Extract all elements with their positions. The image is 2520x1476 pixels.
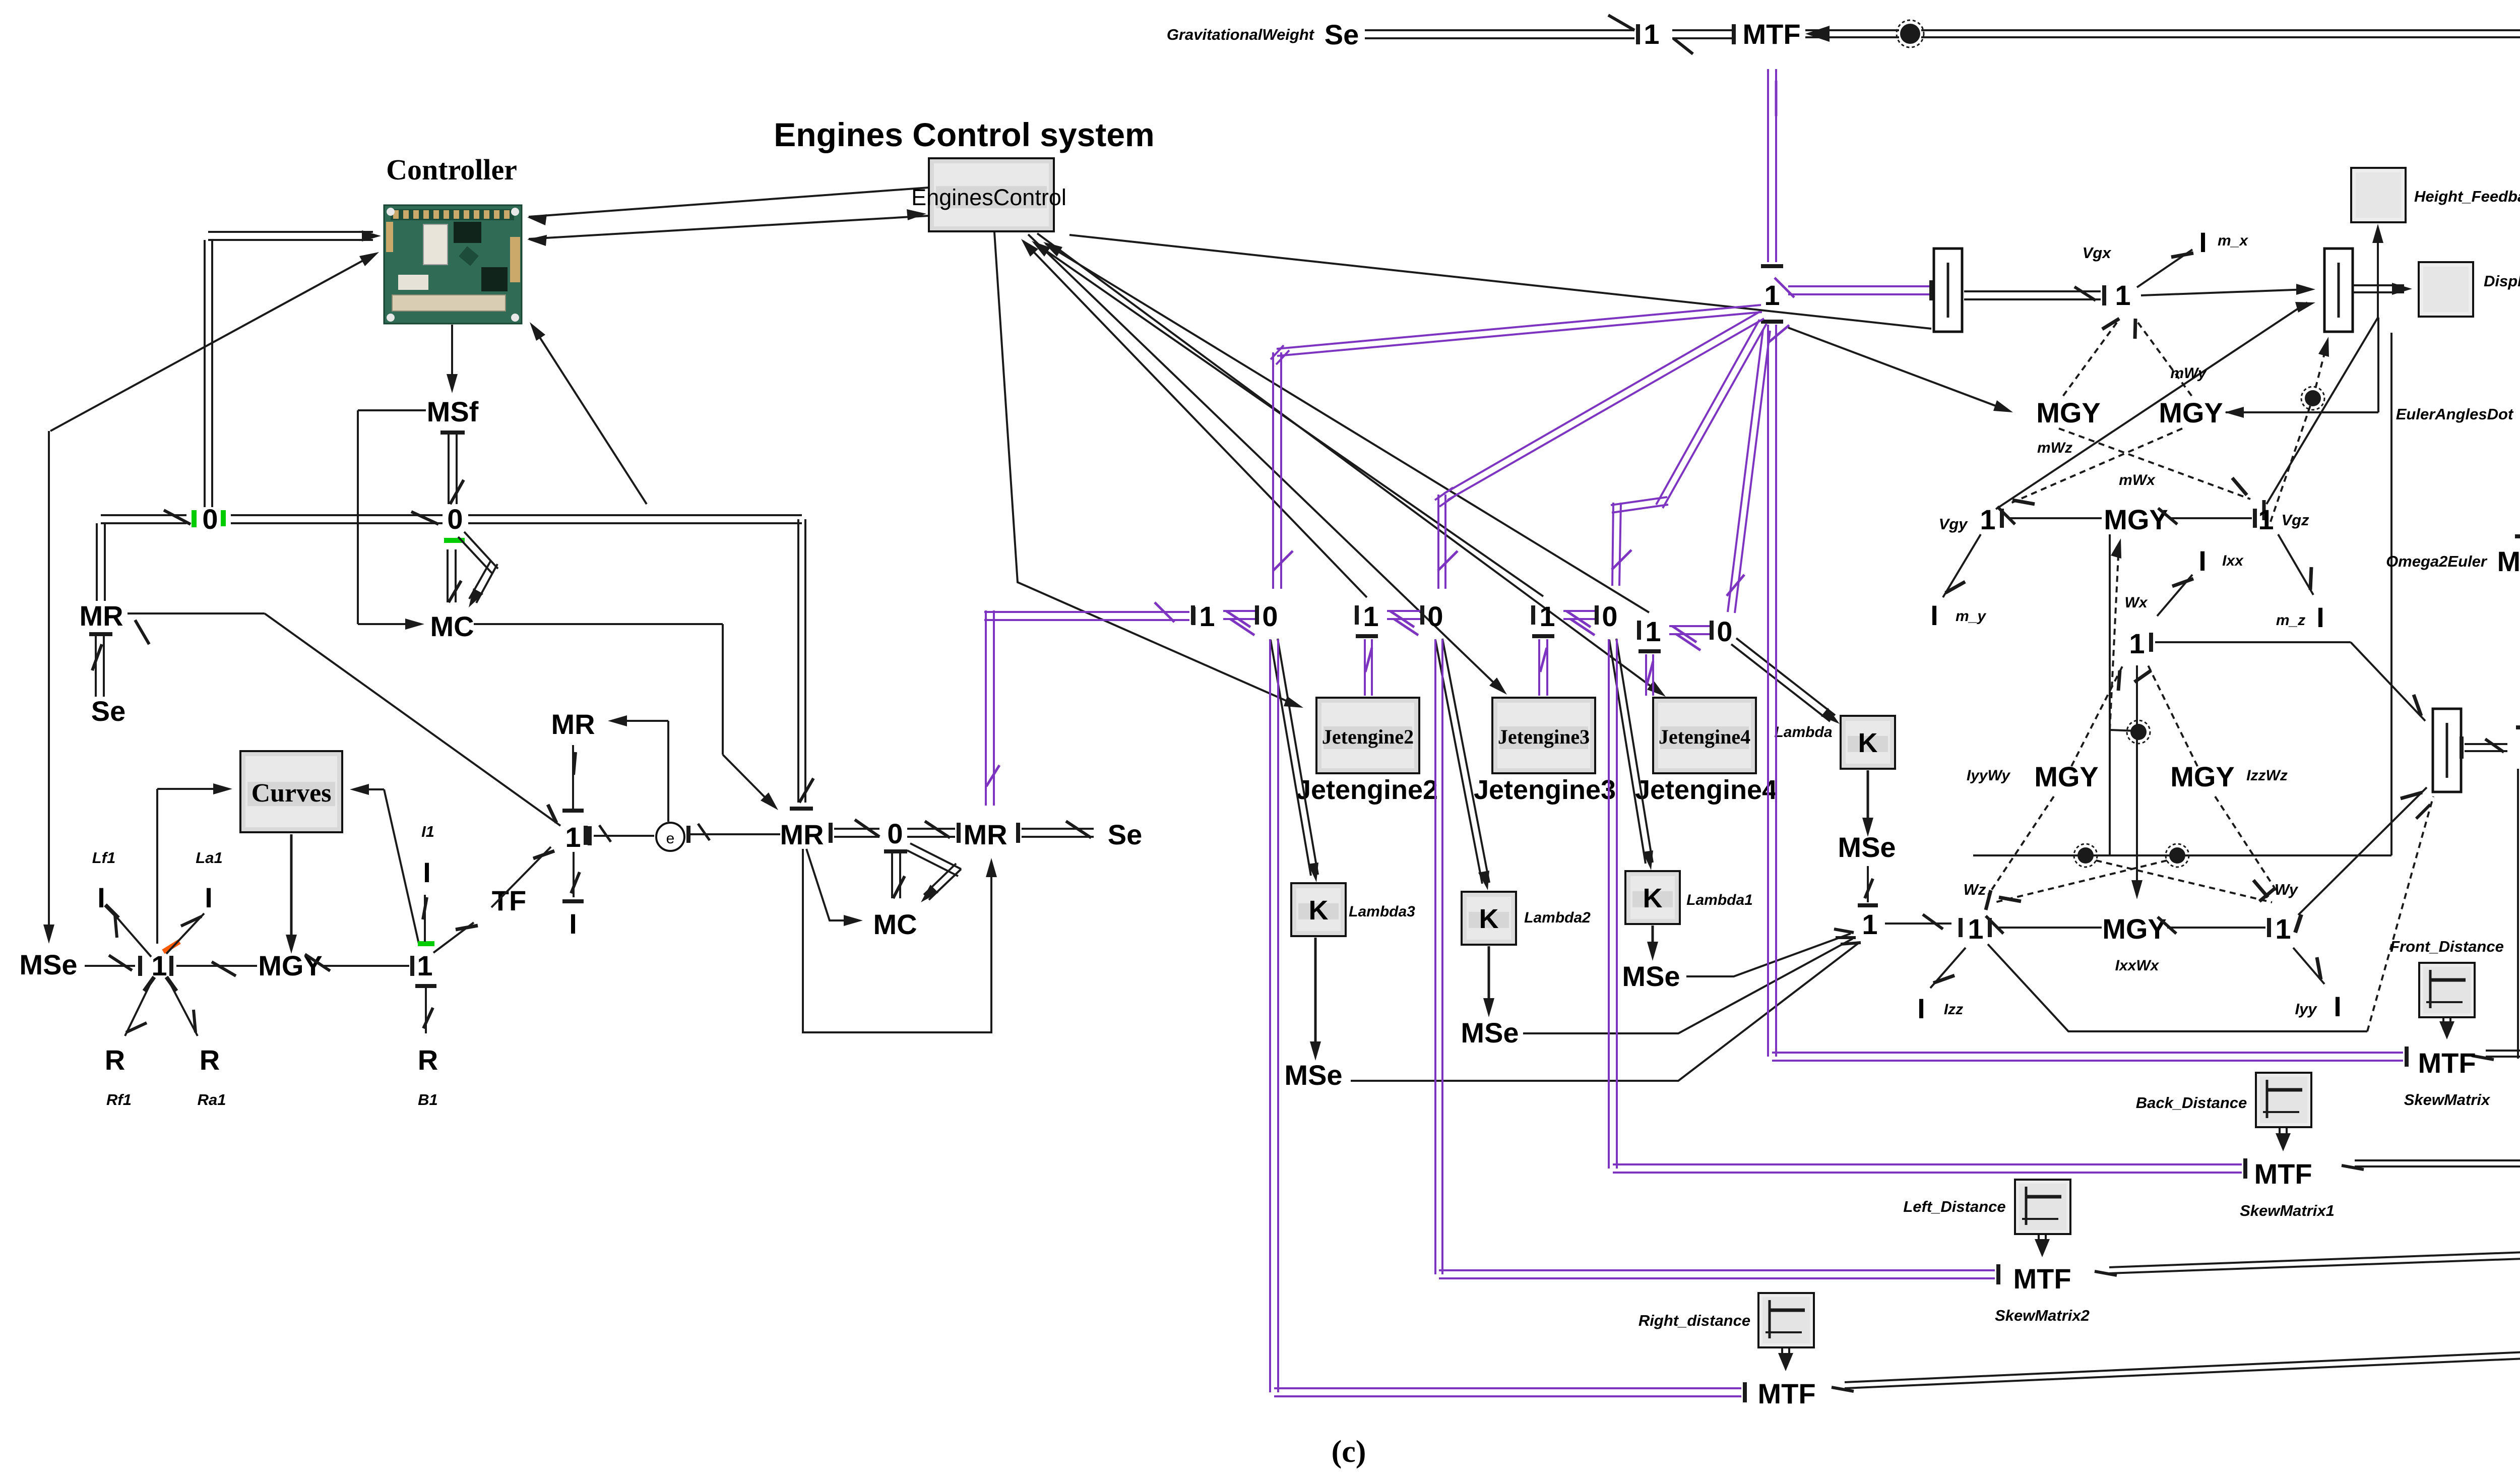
block Jetengine3: [1492, 698, 1595, 773]
svg-text:1: 1: [1764, 279, 1780, 311]
svg-text:MSe: MSe: [1461, 1017, 1519, 1049]
svg-text:1: 1: [2115, 279, 2130, 311]
bond dot to 1 Wz (diagonal): [1995, 858, 2177, 902]
vertical purple 0 Jet4 to MTF SkewMatrix1: [1608, 639, 1610, 1168]
bond 1 to I (speed): [573, 852, 575, 897]
wire MR to MC (middle modulation): [806, 849, 855, 920]
svg-text:MTF: MTF: [2254, 1158, 2312, 1190]
svg-text:1: 1: [1644, 18, 1659, 50]
bond 1 to I (La1): [166, 913, 204, 954]
svg-text:1: 1: [2275, 913, 2291, 945]
wire MR-MR feedback loop (bottom): [803, 849, 991, 1032]
junction 1 (Wz): [1959, 918, 1963, 937]
svg-text:Jetengine2: Jetengine2: [1296, 775, 1438, 805]
block K (Lambda3): [1291, 883, 1346, 936]
bond hub down to MTF SkewMatrix (long purple): [1761, 320, 1783, 324]
wire junction 1 Jet2 to EnginesControl: [1023, 241, 1367, 597]
wire 1 to Curves (left): [157, 788, 224, 790]
svg-text:Lambda1: Lambda1: [1686, 892, 1753, 908]
bond MGY IxxWx to 1 Wz: [1997, 927, 2102, 929]
bond sensor to Displacement_probe: [2353, 291, 2404, 293]
bond 1 Gy fan to MTF SkewMatrix (down): [2517, 769, 2519, 1059]
svg-text:MTF: MTF: [2013, 1263, 2071, 1295]
svg-text:I: I: [1917, 993, 1925, 1024]
svg-text:Lambda2: Lambda2: [1524, 909, 1591, 926]
signal e circle: [656, 823, 684, 851]
wire junction 1 Jet4 to EnginesControl: [1046, 244, 1649, 612]
bond Vgy junction to mass sensor (diagonal): [1996, 302, 2307, 509]
wire Left_Distance to MTF: [2038, 1235, 2040, 1246]
bond 1 Wz to I Izz: [1930, 948, 1966, 988]
wire sensor column to 1 Vgz: [2266, 318, 2378, 504]
svg-text:0: 0: [1427, 600, 1443, 632]
svg-text:Jetengine2: Jetengine2: [1322, 725, 1414, 748]
bond 0 to MC (vertical): [447, 549, 449, 602]
signal dot (top): [1900, 24, 1920, 44]
svg-text:MSe: MSe: [1284, 1059, 1342, 1091]
svg-text:MSe: MSe: [1622, 960, 1680, 992]
bond 1 to R (Ra1): [169, 982, 198, 1036]
svg-text:0: 0: [1262, 600, 1278, 632]
svg-text:I: I: [2334, 991, 2342, 1022]
bond 1 Wy to MGY IxxWx: [2167, 927, 2265, 929]
bond Jetengine4 to 1: [1639, 649, 1661, 653]
svg-text:1: 1: [1980, 504, 1995, 535]
bond Se to MR (left): [89, 632, 112, 636]
svg-text:IxxWx: IxxWx: [2115, 957, 2160, 974]
wire 1 Wz to Gy sensor (bottom loop): [1988, 944, 2367, 1031]
bond 1 to 1 (Wz link): [1885, 922, 1951, 925]
bond hub to 0 Jetengine4 (purple): [1656, 320, 1759, 505]
wire MR to e: [686, 833, 780, 835]
svg-text:MGY: MGY: [2159, 397, 2223, 428]
svg-text:I: I: [423, 856, 431, 888]
svg-text:1: 1: [1862, 908, 1877, 940]
svg-text:MSe: MSe: [19, 949, 77, 980]
wire Front_Distance to MTF: [2442, 1018, 2444, 1029]
bond Jetengine3 to 1: [1532, 634, 1554, 638]
svg-text:MR: MR: [79, 600, 123, 632]
wire 1 to Curves (right, from TF junction): [358, 788, 384, 790]
svg-text:MGY: MGY: [2036, 397, 2101, 428]
bond 0 to MC (middle, vertical): [884, 849, 907, 853]
wire EnginesControl to Jetengine2: [994, 232, 1295, 705]
svg-text:I: I: [1930, 599, 1938, 631]
green causal mark under 0: [444, 538, 465, 543]
bond hub to MTF (top, vertical purple): [1767, 69, 1769, 262]
svg-text:MGY: MGY: [2170, 761, 2235, 792]
mass flow sensor (height): [2324, 249, 2353, 332]
bond MGY IyyWy to 1 Wx: [2071, 665, 2123, 766]
svg-text:MTF: MTF: [1757, 1378, 1815, 1409]
wire EnginesControl to Jetengine3: [1028, 234, 1499, 688]
block Jetengine4: [1653, 698, 1756, 773]
svg-text:mWz: mWz: [2037, 440, 2072, 456]
svg-text:Se: Se: [1325, 19, 1359, 50]
svg-text:Wy: Wy: [2275, 881, 2299, 898]
svg-text:Lf1: Lf1: [92, 849, 116, 867]
bond 1 to R (B1): [415, 984, 436, 988]
bonds MGY to 1 Vgx (harpoons below): [2061, 323, 2117, 398]
bond 0 to MR (left edge): [101, 522, 186, 524]
svg-text:e: e: [666, 830, 675, 847]
svg-text:IyyWy: IyyWy: [1967, 767, 2010, 784]
block Displacement_probe: [2419, 262, 2473, 317]
svg-text:MTF: MTF: [2497, 545, 2520, 577]
wire MC to MR (modulation, long): [474, 623, 723, 625]
bond 1 Wx to I Ixx: [2157, 575, 2192, 616]
bond 1 Wx to Gy sensor (long line): [2155, 641, 2351, 643]
svg-text:I: I: [97, 882, 105, 913]
bond 1 Vgy to I m_y: [1943, 534, 1981, 597]
svg-text:1: 1: [417, 950, 432, 981]
svg-text:SkewMatrix1: SkewMatrix1: [2240, 1202, 2335, 1219]
wire Right_distance to MTF: [1781, 1348, 1783, 1360]
purple horizontal to MTF SkewMatrix: [1772, 1060, 2403, 1062]
svg-text:R: R: [105, 1044, 125, 1076]
svg-text:Left_Distance: Left_Distance: [1903, 1198, 2005, 1215]
wire sensor to Height_Feedback: [2377, 232, 2379, 318]
bond Se to 1 junction (top): [1365, 37, 1634, 39]
signal dot (gravity direction): [2305, 390, 2321, 406]
block Jetengine2: [1316, 698, 1419, 773]
svg-text:R: R: [200, 1044, 220, 1076]
wire controller lower-right diagonal: [532, 326, 647, 504]
green causal mark above 1 (rotor): [418, 941, 434, 946]
signal dot (Wx column): [2130, 724, 2147, 740]
purple horizontal to MTF SkewMatrix2: [1439, 1277, 1995, 1279]
bond Gy sensor to 1 Gy_Values: [2460, 736, 2464, 759]
block K (Lambda1): [1625, 871, 1680, 924]
svg-text:EnginesControl: EnginesControl: [911, 184, 1066, 210]
svg-text:1: 1: [1199, 600, 1215, 632]
bond 1 to I (I1): [424, 895, 426, 942]
svg-text:K: K: [1479, 904, 1499, 934]
svg-text:Vgx: Vgx: [2083, 244, 2112, 262]
wire EnginesControl to controller (upper): [529, 188, 929, 217]
purple horizontal to MTF SkewMatrix1: [1613, 1172, 2242, 1174]
bond Jetengine2 to 1: [1356, 634, 1378, 638]
svg-text:Omega2Euler: Omega2Euler: [2386, 552, 2488, 570]
block K (Lambda): [1841, 716, 1895, 769]
bond MGY IzzWz to 1 Wx: [2148, 665, 2197, 766]
gyrator MGY top arrow (from 1 Wx): [2111, 538, 2121, 559]
svg-text:Izz: Izz: [1944, 1001, 1963, 1018]
svg-text:IzzWz: IzzWz: [2246, 767, 2288, 784]
bond 0 left to 0 right: [231, 522, 443, 524]
svg-text:MGY: MGY: [2034, 761, 2099, 792]
svg-text:Right_distance: Right_distance: [1639, 1312, 1750, 1329]
bond TF to 1 (e junction): [491, 847, 551, 907]
svg-text:MR: MR: [551, 708, 595, 740]
svg-text:(c): (c): [1332, 1435, 1366, 1469]
svg-text:Curves: Curves: [251, 779, 332, 808]
bond 1 Wy to Gy sensor (diagonal): [2298, 787, 2427, 915]
wire Height_Feedback column to MGY mWy: [2377, 318, 2379, 412]
svg-text:Front_Distance: Front_Distance: [2390, 938, 2504, 955]
bond controller to MSf: [451, 325, 453, 385]
bond e to 1 (error): [594, 835, 654, 837]
svg-text:I: I: [205, 882, 213, 913]
svg-text:Rf1: Rf1: [106, 1091, 132, 1109]
sensor Back_Distance: [2256, 1073, 2311, 1127]
svg-text:Wx: Wx: [2125, 594, 2148, 611]
bond MGY IyyWy to 1 Wz: [1988, 796, 2054, 895]
bond 1 to MGY: [176, 965, 257, 967]
bond MR to Se (middle): [1016, 823, 1020, 843]
wire K to MSe (Lambda1): [1652, 926, 1654, 953]
block Height_Feedback: [2351, 168, 2406, 222]
svg-text:Wz: Wz: [1964, 881, 1986, 898]
svg-text:Vgy: Vgy: [1939, 515, 1969, 533]
bond dot to 1 Wy (diagonal): [2086, 858, 2272, 902]
svg-text:Controller: Controller: [386, 153, 517, 186]
svg-text:0: 0: [447, 503, 463, 535]
svg-text:B1: B1: [418, 1091, 438, 1109]
wire MSe Lambda3 to 1 junction: [1351, 944, 1858, 1081]
svg-text:K: K: [1643, 883, 1663, 913]
svg-text:La1: La1: [196, 849, 222, 867]
svg-text:0: 0: [1602, 600, 1617, 632]
wire MSe Lambda1 to 1 junction: [1686, 934, 1851, 976]
bond 1 Gy to MTF Omega2Euler (vertical): [2516, 725, 2520, 729]
bond MSf to 0 junction: [440, 430, 465, 435]
block K (Lambda2): [1462, 892, 1516, 945]
bond MTF to 1 EulerAnglesDot (vertical): [2515, 534, 2520, 538]
bond 0 to K (Lambda3): [1271, 640, 1311, 876]
bond dot to MTF (top): [1805, 26, 1830, 42]
bond hub to 0 Jetengine3 (purple): [1444, 312, 1760, 494]
svg-text:m_z: m_z: [2276, 612, 2305, 629]
svg-text:I1: I1: [421, 823, 434, 840]
svg-text:MSe: MSe: [1838, 831, 1896, 863]
svg-text:Lambda: Lambda: [1774, 724, 1832, 741]
wire EnginesControl to controller (lower): [529, 216, 929, 239]
big rectangle loop (angular cluster): [2109, 534, 2111, 855]
bond Curves to MGY (modulation): [290, 834, 293, 946]
bond 1 to I (Lf1): [113, 913, 151, 957]
svg-text:1: 1: [1539, 600, 1555, 632]
svg-text:1: 1: [1968, 913, 1983, 945]
svg-text:I: I: [2316, 601, 2324, 633]
wire into MGY mWz: [1788, 328, 2005, 409]
bond MSe to 1 (moments): [1867, 866, 1869, 902]
bond MGY mWx to 1 Vgy: [2008, 517, 2102, 519]
bond MR to 0 (middle row): [829, 823, 833, 843]
svg-text:Ra1: Ra1: [198, 1091, 226, 1109]
wire feedback to EnginesControl (long, from velocity junction): [1069, 235, 1931, 329]
green causal bars flanking 0 (left): [192, 510, 197, 527]
wire Back_Distance to MTF: [2279, 1128, 2281, 1140]
purple horizontal to MTF Right distance: [1274, 1395, 1741, 1397]
svg-text:Jetengine4: Jetengine4: [1659, 725, 1750, 748]
bond 1 Vgz to MGY mWx: [2170, 517, 2252, 519]
block EnginesControl: [929, 158, 1054, 231]
svg-text:Iyy: Iyy: [2295, 1000, 2317, 1018]
bond hub to flow sensor (right): [1788, 293, 1929, 295]
sensor Front_Distance: [2419, 963, 2475, 1017]
bond MGY mWz to 1 Vgz (diagonal): [2059, 428, 2250, 499]
bond 1 to MGY (right side): [323, 965, 409, 967]
svg-text:m_x: m_x: [2218, 232, 2248, 249]
controller PCB image: [384, 205, 522, 324]
bond 1 Vgx to mass sensor: [2141, 289, 2307, 295]
svg-text:Height_Feedback: Height_Feedback: [2414, 188, 2520, 205]
flow sensor (Gy values): [2433, 709, 2461, 792]
svg-text:SkewMatrix: SkewMatrix: [2404, 1091, 2491, 1109]
svg-text:I: I: [2198, 545, 2207, 577]
bond 0 to K (Lambda): [1731, 644, 1830, 721]
bond hub to 0 K Lambda (purple): [1728, 330, 1763, 612]
svg-text:K: K: [1309, 895, 1329, 926]
wire K to MSe (Lambda2): [1488, 946, 1490, 1009]
svg-text:Se: Se: [1108, 819, 1143, 850]
svg-text:0: 0: [1717, 616, 1732, 647]
svg-text:Back_Distance: Back_Distance: [2136, 1094, 2247, 1112]
bond 1 Vgz to mass sensor (modulation, dashed through dot): [2271, 398, 2313, 522]
bond 0 to K (Lambda1): [1609, 640, 1646, 864]
svg-text:I: I: [569, 908, 577, 940]
svg-text:MGY: MGY: [2102, 913, 2167, 945]
svg-text:1: 1: [2129, 628, 2145, 659]
svg-text:0: 0: [202, 503, 218, 535]
svg-text:MTF: MTF: [2418, 1047, 2476, 1079]
sensor Right_distance: [1758, 1293, 1814, 1347]
wire K to MSe (Lambda3): [1314, 938, 1317, 1053]
wire purple corner to MR (from Jetengine2 junction): [1155, 602, 1174, 622]
bond 1 to MR (diagonal long): [128, 612, 265, 614]
flow sensor (force): [1934, 249, 1962, 332]
vertical purple 0 Jet2 to MTF bottom: [1269, 639, 1271, 1392]
bond 0 junction to controller (left input): [208, 239, 373, 241]
svg-text:I: I: [2199, 226, 2207, 258]
wire K to MSe (Lambda): [1867, 770, 1869, 829]
wire MSe Lambda2 to 1 junction: [1523, 939, 1853, 1033]
svg-text:mWx: mWx: [2119, 472, 2156, 488]
bond 1 to TF: [433, 922, 474, 953]
bond MTF to 1 (top): [1672, 37, 1732, 39]
bond 0 to MC (bent): [458, 537, 492, 574]
svg-text:K: K: [1858, 728, 1878, 758]
signal dot (loop bottom left): [2077, 847, 2094, 864]
svg-text:R: R: [418, 1044, 438, 1076]
bond purple junction to MR (middle right): [984, 611, 1189, 613]
bond 0 to MC (middle, bent): [907, 850, 958, 876]
bond MGY mWy to 1 Vgy (diagonal): [2008, 428, 2182, 504]
svg-text:MC: MC: [873, 908, 917, 940]
wire MSf to MC modulation: [358, 409, 426, 411]
sensor Left_Distance: [2015, 1180, 2070, 1234]
svg-text:Lambda3: Lambda3: [1349, 903, 1415, 920]
svg-text:1: 1: [1363, 600, 1378, 632]
svg-text:MR: MR: [963, 819, 1007, 850]
orange causal mark at 1: [163, 942, 179, 952]
svg-text:1: 1: [2258, 504, 2274, 535]
bond 1 to R (Rf1): [125, 982, 151, 1036]
bond 0 to K (Lambda2): [1435, 640, 1482, 884]
svg-text:Jetengine3: Jetengine3: [1498, 725, 1590, 748]
svg-text:GravitationalWeight: GravitationalWeight: [1167, 26, 1315, 43]
bond sensor to 1 Vgx: [1964, 298, 2101, 300]
svg-text:SkewMatrix2: SkewMatrix2: [1995, 1307, 2090, 1324]
bond 1 Vgz to I m_z / sensor line: [2278, 534, 2313, 595]
wire 1 Wx to MGY IxxWx (with dot): [2136, 665, 2138, 891]
svg-text:Displacement_probe: Displacement_probe: [2484, 272, 2520, 290]
svg-text:m_y: m_y: [1956, 608, 1986, 625]
svg-text:Jetengine3: Jetengine3: [1474, 775, 1616, 805]
svg-text:MSf: MSf: [427, 396, 479, 427]
wire MSe column (left edge vertical): [48, 431, 50, 936]
svg-text:Jetengine4: Jetengine4: [1635, 775, 1777, 805]
svg-text:MC: MC: [430, 610, 474, 642]
svg-text:Engines Control system: Engines Control system: [774, 116, 1155, 153]
bond MGY IzzWz to 1 Wy: [2215, 796, 2278, 893]
bond 1 to I m_x: [2137, 250, 2192, 287]
wire junction 1 Jet3 to EnginesControl: [1034, 242, 1543, 596]
bond 0 to MR (middle-right): [907, 836, 955, 838]
signal dot (loop bottom right): [2169, 847, 2185, 864]
bond 0-0 corner down to MR (mid): [468, 522, 802, 524]
wire MR feedback from e-branch: [616, 720, 668, 722]
svg-text:MGY: MGY: [258, 950, 323, 981]
bond MSe to 1: [85, 965, 135, 967]
svg-text:Vgz: Vgz: [2281, 511, 2309, 529]
bond hub to 0 Jetengine2 (purple): [1277, 305, 1761, 349]
vertical purple 0 Jet3 to MTF SkewMatrix2: [1434, 639, 1436, 1274]
svg-text:0: 0: [887, 818, 903, 849]
svg-text:MTF: MTF: [1742, 18, 1800, 50]
svg-text:MR: MR: [780, 819, 824, 850]
svg-text:EulerAnglesDot: EulerAnglesDot: [2396, 405, 2514, 423]
svg-text:1: 1: [565, 821, 581, 853]
svg-text:1: 1: [1645, 616, 1661, 647]
wire EnginesControl to Jetengine4: [1037, 233, 1658, 692]
bond 1 Wy to I Iyy: [2293, 948, 2324, 984]
svg-text:Se: Se: [91, 695, 126, 727]
bond MSe branch to controller (diagonal from lower left): [50, 255, 374, 431]
block Curves: [240, 751, 342, 832]
svg-text:Ixx: Ixx: [2222, 552, 2244, 569]
bond 1 to MR (mid cluster, vertical): [572, 745, 574, 813]
svg-text:mWy: mWy: [2170, 365, 2207, 382]
